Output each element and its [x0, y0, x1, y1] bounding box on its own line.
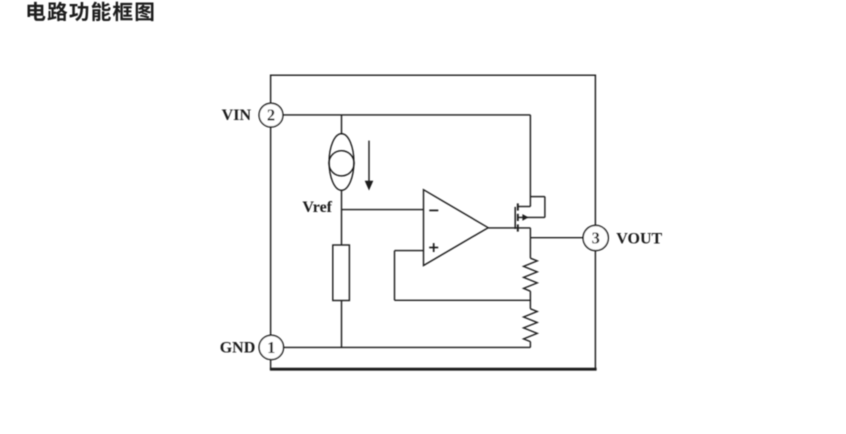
svg-text:3: 3	[592, 229, 600, 248]
svg-text:VIN: VIN	[222, 107, 252, 124]
svg-text:1: 1	[267, 338, 275, 357]
svg-text:2: 2	[267, 106, 275, 125]
svg-text:Vref: Vref	[302, 199, 332, 216]
svg-text:GND: GND	[220, 340, 256, 357]
svg-text:VOUT: VOUT	[616, 230, 662, 247]
